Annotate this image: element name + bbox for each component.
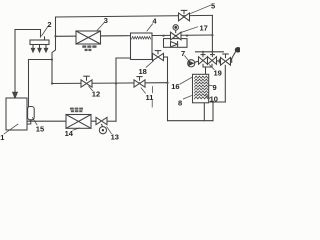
leader 5	[190, 5, 211, 14]
leader 19	[209, 65, 214, 70]
svg-text:10: 10	[210, 94, 218, 103]
tiny caption text under box 3	[82, 45, 96, 51]
leader 1	[4, 124, 18, 134]
svg-text:7: 7	[181, 49, 185, 58]
leader lines	[4, 5, 214, 134]
wire left feed horizontal to unit 2	[15, 29, 41, 31]
valve 5	[179, 13, 190, 21]
svg-text:8: 8	[178, 99, 182, 108]
svg-text:9: 9	[213, 83, 217, 92]
valve B of group 19	[208, 57, 217, 65]
svg-text:14: 14	[65, 129, 74, 138]
leader 17	[181, 27, 197, 33]
valve 13 with actuator below	[96, 117, 107, 124]
svg-text:16: 16	[171, 82, 179, 91]
wire tank8 inlet drop	[205, 67, 207, 74]
tank 8	[193, 74, 209, 103]
wire valve13 outlet to corner	[107, 120, 116, 122]
valve 12	[81, 80, 92, 87]
tank 1	[6, 98, 27, 130]
wire arrow line into tank 1	[14, 30, 16, 94]
svg-text:12: 12	[92, 90, 100, 99]
leader 15	[32, 118, 37, 125]
leader 10	[206, 96, 210, 99]
check valve bypass box (under valve 17 line)	[164, 39, 188, 48]
wire bottom return line y=120.7	[168, 120, 214, 122]
valve 17 with actuator	[171, 32, 182, 40]
leader 12	[89, 86, 93, 90]
wire valveC down line x=225.3	[224, 65, 226, 102]
leader 3	[97, 23, 104, 31]
svg-text:17: 17	[200, 24, 208, 33]
wire top header line	[56, 15, 213, 17]
svg-text:2: 2	[47, 20, 51, 29]
accumulator 15	[28, 107, 35, 120]
wire bottom process line tank1 to box14	[27, 120, 96, 122]
wire tank8 bottom outlet drop	[203, 103, 205, 121]
leader 8	[183, 96, 191, 99]
svg-text:19: 19	[214, 69, 222, 78]
svg-text:11: 11	[146, 93, 154, 102]
wire west jog to condenser loop	[29, 59, 53, 61]
svg-text:18: 18	[139, 67, 147, 76]
leader 7	[185, 56, 189, 61]
svg-text:5: 5	[211, 2, 215, 11]
valve 18	[153, 53, 164, 60]
junction node dots	[54, 35, 56, 37]
wire riser valve A	[202, 52, 204, 57]
stray mark near label 11	[152, 87, 154, 93]
wire left main vertical V1 with jog	[52, 17, 56, 84]
wire right riser from top line down	[211, 15, 213, 56]
valve A of group 19	[199, 57, 208, 65]
unit 2 flat box	[30, 40, 49, 45]
leader 4	[147, 24, 153, 31]
unit 2 top stub	[44, 37, 46, 40]
wire elbow feeding tank 4 left side	[116, 57, 131, 59]
wire right-middle vertical x=167.5	[167, 57, 169, 121]
leader 18	[146, 61, 153, 67]
svg-text:3: 3	[104, 16, 108, 25]
leader 11	[141, 88, 145, 93]
heat exchanger box 3	[76, 31, 101, 44]
wire return riser x=213	[212, 102, 214, 121]
svg-text:1: 1	[0, 133, 4, 142]
valve 11	[134, 80, 145, 87]
valve C	[221, 57, 231, 65]
wire valve B to valve C link	[217, 60, 221, 62]
tank 4 internal coil	[132, 37, 151, 40]
wire pump outlet link	[195, 61, 199, 62]
leader 14	[73, 128, 80, 130]
wire valve group header y=51.8	[196, 51, 224, 53]
leader 9	[209, 84, 212, 86]
svg-text:15: 15	[36, 125, 44, 134]
tank 8 internal coil	[194, 76, 208, 99]
wire middle process line y=36	[56, 35, 213, 36]
wire vertical through junction x=116	[115, 58, 117, 121]
wire stub down into unit 2	[40, 30, 42, 38]
wire tank8 bottom header y=102	[209, 101, 226, 103]
wire valve18 outlet stub	[164, 56, 168, 58]
pump 7	[188, 60, 195, 67]
svg-text:13: 13	[111, 133, 119, 142]
arrows under unit 2	[32, 46, 34, 50]
wire bypass loop under valves A B	[203, 64, 212, 67]
arrow into tank 1	[13, 92, 18, 98]
wire elbow component15 to tank1	[27, 120, 31, 124]
wire left drop to component 15	[28, 60, 30, 108]
tank 4	[131, 33, 153, 60]
leader 2	[42, 27, 48, 36]
svg-text:4: 4	[152, 17, 157, 26]
leader 13	[107, 127, 112, 134]
node 6 blob at right edge	[235, 47, 241, 53]
leader 16	[180, 77, 192, 84]
crossed box 14	[66, 115, 91, 129]
wire valve-12 line y=83.5	[52, 82, 168, 85]
wire valve C to node 6 diagonal	[231, 51, 237, 61]
tiny caption text above box 14	[70, 108, 83, 113]
